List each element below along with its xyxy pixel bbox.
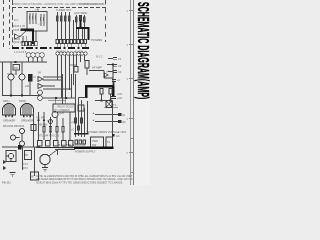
wire into C121 lead xyxy=(107,64,113,66)
wire left return xyxy=(2,62,4,96)
junction dot y98 b xyxy=(65,97,67,99)
svg-text:R130: R130 xyxy=(70,63,77,67)
speaker SP1 dome xyxy=(3,104,16,116)
left perforation dashed line 2 xyxy=(9,0,11,49)
svg-text:IC: IC xyxy=(34,75,37,79)
coil L111 xyxy=(59,52,62,55)
wire x78 vertical xyxy=(78,29,80,40)
resistor R160 body xyxy=(31,125,36,131)
wire bundle v4 xyxy=(69,55,71,90)
section tick 3 xyxy=(129,78,134,80)
coil L118 xyxy=(84,52,87,55)
wire Q110 collector xyxy=(10,62,12,74)
wire heatsink down xyxy=(29,82,31,96)
junction dot Q110 xyxy=(10,95,12,97)
heavy rail left drop xyxy=(85,86,87,98)
svg-text:SW: SW xyxy=(14,66,19,70)
coil L112 xyxy=(63,52,66,55)
svg-text:(R): (R) xyxy=(122,120,126,124)
connector pin b2 xyxy=(79,140,81,144)
transistor Q140 xyxy=(52,112,58,118)
coil L101 xyxy=(26,53,31,58)
wire L101 lead xyxy=(28,57,30,62)
svg-text:ADJUST BIAS 25mV AT TP1-TP2.: ADJUST BIAS 25mV AT TP1-TP2. SEMICONDUCT… xyxy=(36,181,123,184)
frame border line xyxy=(133,0,135,185)
op-amp U103 xyxy=(38,77,43,82)
switch S101 wire xyxy=(95,114,118,116)
svg-text:SP(L): SP(L) xyxy=(3,99,10,103)
switch S102 contact xyxy=(118,120,122,123)
speaker SP2 terminals xyxy=(23,115,25,118)
section divider line 2 xyxy=(130,172,133,174)
svg-text:REG B+: REG B+ xyxy=(38,123,48,127)
svg-text:AC: AC xyxy=(116,134,120,138)
right margin background xyxy=(134,0,150,185)
svg-text:x→x: x→x xyxy=(47,120,53,123)
svg-text:R72: R72 xyxy=(23,166,28,170)
resistor R103 body xyxy=(35,16,36,20)
fuse box F101 xyxy=(106,137,113,147)
svg-text:PWR: PWR xyxy=(92,139,98,143)
terminal dots SP2 xyxy=(23,115,31,117)
wire Q110 emitter xyxy=(10,80,12,96)
svg-text:TO MAIN: TO MAIN xyxy=(91,38,102,42)
wire step left xyxy=(79,97,87,99)
wire CN103 lead 3 xyxy=(84,44,86,48)
speaker SP2 hatch 5 xyxy=(28,104,30,115)
heavy bottom rail thin part xyxy=(36,147,74,149)
wire CN102 lead 1 xyxy=(56,44,58,48)
resistor R107 xyxy=(43,14,45,26)
wire pin v2 xyxy=(80,55,82,62)
resistor R113 lead xyxy=(69,12,71,40)
connector CN101 pin 4 xyxy=(32,42,34,46)
wire K101 down xyxy=(15,70,17,75)
resistor R141 inside amp xyxy=(109,89,112,95)
resistor R170 body xyxy=(43,127,45,133)
resistor R122 body xyxy=(84,17,86,22)
svg-text:dA: dA xyxy=(106,71,109,74)
wire center v2 xyxy=(43,112,45,140)
wire y80 horizontal xyxy=(43,79,63,81)
speaker SP1 hatch 2 xyxy=(8,104,10,115)
svg-text:+B: +B xyxy=(35,8,39,12)
heavy supply bus vertical xyxy=(32,29,34,44)
resistor R110 body xyxy=(57,16,59,21)
wire L102 lead xyxy=(32,57,34,62)
svg-text:Q1 Q2: Q1 Q2 xyxy=(7,72,15,76)
coil L117 xyxy=(80,52,83,55)
connector CN101 pin 3 xyxy=(28,42,30,46)
wire bundle v3 xyxy=(65,55,67,97)
wire step down xyxy=(78,98,80,137)
speaker SP2 hatch 4 xyxy=(24,104,26,115)
capacitor C115 xyxy=(85,61,89,69)
wire bundle mid v0 xyxy=(87,101,89,133)
resistor R171 body xyxy=(56,127,58,133)
transistor Q123 lead xyxy=(10,159,12,162)
connector box row 5 xyxy=(69,141,74,147)
coil L113 xyxy=(66,52,69,55)
capacitor C120 plates xyxy=(113,58,117,60)
svg-text:R61 R62 R63 R64: R61 R62 R63 R64 xyxy=(3,124,25,128)
transistor Q123 base lead xyxy=(6,155,8,157)
wire AF right vertical xyxy=(112,65,114,86)
transformer T101 cross 2 xyxy=(106,101,112,108)
battery box B101 xyxy=(31,172,39,180)
svg-text:+C: +C xyxy=(71,128,75,132)
dashed enclosure left border xyxy=(12,0,14,48)
resistor R120 body xyxy=(76,17,78,22)
svg-text:R104 4.7K: R104 4.7K xyxy=(13,24,26,28)
coil L114 xyxy=(70,52,73,55)
resistor R102 body xyxy=(32,16,33,20)
wire y107 xyxy=(104,107,118,109)
svg-text:+C: +C xyxy=(71,120,75,124)
capacitor C124 polarized plates xyxy=(111,97,116,99)
output bus wire xyxy=(2,95,40,97)
svg-text:AUX TAPE: AUX TAPE xyxy=(74,11,87,15)
capacitor C121 plates xyxy=(113,65,117,67)
wire x33 long vertical xyxy=(33,112,35,147)
wire Q102 to bus xyxy=(20,31,26,37)
wire C115 lead down xyxy=(86,68,88,75)
wire L104 lead xyxy=(41,57,43,62)
transistor Q112 xyxy=(38,90,43,95)
wire y149 horizontal xyxy=(55,149,75,151)
speaker SP1 terminal 2 xyxy=(11,115,13,118)
node dot R141 xyxy=(110,100,112,102)
resistor R112 body xyxy=(65,16,67,21)
resistor R103 xyxy=(35,13,37,24)
node junction AF xyxy=(112,64,114,66)
capacitor C140 body xyxy=(62,127,64,133)
wire vertical x73 xyxy=(73,20,75,40)
wire pin v3 xyxy=(84,55,86,60)
ground GND1 xyxy=(10,173,16,176)
wire C123 down xyxy=(113,82,115,87)
coil L104 xyxy=(40,53,45,58)
speaker SP1 hatch 3 xyxy=(12,106,14,116)
speaker SP1 hatch 5 xyxy=(10,104,12,115)
resistor R106 body xyxy=(40,17,41,21)
wire y147 horizontal xyxy=(2,146,40,148)
connector CN102 pin 3 xyxy=(63,40,66,44)
resistor R161 box xyxy=(25,151,32,160)
transistor Q121 xyxy=(11,135,16,140)
dashed enclosure top border xyxy=(12,7,106,9)
wire AF step vertical xyxy=(103,71,105,79)
switch S102 wire xyxy=(95,121,118,123)
heavy signal bus horizontal xyxy=(76,27,90,29)
transistor Q123 box xyxy=(6,151,16,162)
wire CN102 lead 2 xyxy=(60,44,62,48)
svg-text:1 2 3 4 5 6: 1 2 3 4 5 6 xyxy=(14,50,27,54)
wire C120 lead xyxy=(108,57,113,59)
transformer T101 box xyxy=(106,101,112,108)
section tick 2 xyxy=(129,44,134,46)
wire R140 lead xyxy=(101,94,103,101)
box K101 label xyxy=(13,65,20,71)
svg-text:B+ 35V LINE: B+ 35V LINE xyxy=(58,146,73,150)
left perforation dashed line 1 xyxy=(3,0,5,49)
svg-text:RT: RT xyxy=(25,153,29,157)
svg-text:PB-101: PB-101 xyxy=(2,181,11,185)
coil L110 xyxy=(56,52,59,55)
svg-text:R75 C44 R76 C45: R75 C44 R76 C45 xyxy=(38,134,60,138)
diode D102 xyxy=(105,73,109,77)
resistor R113 body xyxy=(69,16,71,21)
wire x112 long vertical xyxy=(112,101,114,138)
svg-text:* POWER TRANS VOLTAGE 120V: * POWER TRANS VOLTAGE 120V xyxy=(86,130,127,134)
capacitor C130 body xyxy=(78,126,80,130)
resistor R121 body xyxy=(80,16,82,21)
wire x22 vertical low xyxy=(22,147,24,170)
wire AF step horizontal xyxy=(89,70,104,72)
wire bundle v5 xyxy=(73,55,75,85)
svg-text:IN L: IN L xyxy=(14,19,19,22)
connector CN101 pin 1 xyxy=(22,42,24,46)
connector CN103 pin 2 xyxy=(81,40,84,44)
coil L115 xyxy=(73,52,76,55)
wire center v4 xyxy=(62,118,64,140)
wire y100 horizontal xyxy=(48,99,66,101)
resistor R112 lead xyxy=(65,12,67,40)
wire AF step horizontal 2 xyxy=(104,77,113,79)
svg-text:C71: C71 xyxy=(23,162,28,166)
wire amp inner horizontal xyxy=(95,100,113,102)
paper background xyxy=(0,0,150,185)
transistor Q123 symbol circle xyxy=(8,153,13,158)
connector box row 4 xyxy=(62,141,67,147)
section tick 1 xyxy=(129,10,134,12)
relay box RY102 xyxy=(91,137,104,147)
wire L103 lead xyxy=(37,57,39,62)
speaker SP2 dome xyxy=(21,104,34,116)
wire CN102 lead 5 xyxy=(70,44,72,48)
wire Q111 emitter xyxy=(21,80,23,96)
wire opamp1 in xyxy=(43,76,63,78)
connector box row 3 xyxy=(54,141,59,147)
diode D110 xyxy=(3,160,7,164)
wire Q130 base xyxy=(44,165,46,168)
resistor R150 body xyxy=(75,118,77,123)
wire x34 lower vertical xyxy=(34,147,36,176)
svg-text:TUNER OUT: TUNER OUT xyxy=(56,8,72,12)
junction dot Q111 xyxy=(21,95,23,97)
connector CN102 pin 6 xyxy=(74,40,77,44)
transistor Q120 xyxy=(20,129,25,134)
coil L116 xyxy=(77,52,80,55)
speaker SP2 hatch 3 xyxy=(30,106,32,116)
svg-text:C1: C1 xyxy=(118,57,122,61)
wire left horiz y100 xyxy=(104,100,106,102)
resistor R102 xyxy=(32,13,34,24)
transistor Q141 xyxy=(49,120,53,124)
resistor R172 body xyxy=(49,127,51,133)
wire opamp2 out xyxy=(43,85,55,87)
svg-text:C2: C2 xyxy=(118,64,122,68)
coil L102 xyxy=(31,53,36,58)
svg-text:POWER SIGNAL CTL: POWER SIGNAL CTL xyxy=(79,2,105,6)
op-amp U104 xyxy=(38,84,43,89)
wire bundle v2 xyxy=(61,55,63,97)
wire Q111 collector xyxy=(21,62,23,74)
terminal dots SP1 xyxy=(5,115,13,117)
wire x62 vertical xyxy=(62,74,64,104)
switch S101 contact xyxy=(118,113,122,116)
coil L103 xyxy=(35,53,40,58)
diode D103 box xyxy=(78,105,84,111)
wire pins to box xyxy=(22,36,24,42)
wire R141 lead xyxy=(110,94,112,101)
wire bundle mid v3 xyxy=(84,108,86,137)
svg-text:◄: ◄ xyxy=(92,119,95,122)
wire CN103 lead 2 xyxy=(81,44,83,48)
wire into C122 xyxy=(108,71,113,73)
resistor R131 box xyxy=(74,67,78,73)
svg-text:+C: +C xyxy=(117,78,121,82)
svg-text:AM21: AM21 xyxy=(14,38,21,41)
connector CN101 pin 2 xyxy=(25,42,27,46)
capacitor C123 polarized xyxy=(112,80,116,82)
dashed enclosure heavy bottom border xyxy=(12,47,90,49)
speaker SP2 hatch 1 xyxy=(22,106,24,116)
wire pin5 up xyxy=(35,31,37,42)
connector CN102 pin 4 xyxy=(67,40,70,44)
wire pin v1 xyxy=(76,55,78,66)
resistor R101 body xyxy=(29,16,30,20)
wire x57 vertical above Q130 xyxy=(57,150,59,156)
section tick 5 xyxy=(129,152,134,154)
transistor Q122 xyxy=(20,141,25,146)
transistor Q111 xyxy=(19,74,25,80)
speaker SP2 terminal 2 xyxy=(29,115,31,118)
resistor R106 xyxy=(40,14,42,26)
wire bundle mid v1 xyxy=(75,74,77,137)
relay box RY101 xyxy=(53,104,75,112)
resistor R110 lead xyxy=(57,12,59,40)
transistor Q110 xyxy=(8,74,14,80)
connector box row 1 xyxy=(38,141,43,147)
node dot power xyxy=(112,134,115,137)
svg-text:IN 1 2: IN 1 2 xyxy=(96,56,103,59)
heatsink dark block xyxy=(28,74,33,82)
resistor R122 lead xyxy=(84,15,86,40)
svg-text:3 4 5 6: 3 4 5 6 xyxy=(75,50,83,54)
svg-text:Q05: Q05 xyxy=(59,111,64,115)
connector row bottom pins xyxy=(75,140,77,144)
svg-text:SCHEMATIC DIAGRAM(AMP): SCHEMATIC DIAGRAM(AMP) xyxy=(134,2,150,99)
speaker SP2 hatch 2 xyxy=(26,104,28,115)
ground GND2 xyxy=(42,168,48,171)
wire center v5 xyxy=(69,112,71,140)
svg-text:◄: ◄ xyxy=(92,112,95,115)
frame inner thin line xyxy=(129,0,131,185)
speaker SP1 hatch 4 xyxy=(6,104,8,115)
connector CN103 pin 1 xyxy=(77,40,80,44)
junction dot y98 a xyxy=(55,97,57,99)
transistor Q113 xyxy=(38,96,43,101)
node junction dot xyxy=(15,61,17,63)
svg-text:L/R: L/R xyxy=(25,84,29,88)
heavy supply bus horizontal xyxy=(21,29,35,31)
svg-text:SPEAKER: SPEAKER xyxy=(21,119,33,123)
wire y98 horizontal xyxy=(43,97,76,99)
section divider line xyxy=(130,138,133,140)
connector box row 2 xyxy=(46,141,51,147)
node dot grid b xyxy=(43,119,45,121)
svg-text:+C6: +C6 xyxy=(117,96,122,100)
connector CN102 pin 1 xyxy=(56,40,59,44)
svg-text:C3: C3 xyxy=(118,70,122,74)
connector pin b3 xyxy=(83,140,85,144)
wire center v3 xyxy=(56,117,58,140)
wire x55 drop xyxy=(55,98,57,104)
heavy bottom rail xyxy=(74,146,114,149)
ground bus wire xyxy=(0,61,47,63)
transistor Q102 triangle xyxy=(15,34,21,39)
dashed enclosure right border xyxy=(105,0,107,42)
svg-text:PA: PA xyxy=(38,72,41,75)
svg-text:C105 10u: C105 10u xyxy=(13,28,25,32)
heavy signal bus stub vertical xyxy=(80,20,82,29)
wire CN102 lead 3 xyxy=(63,44,65,48)
wire CN103 lead 1 xyxy=(77,44,79,48)
transistor Q130 leads xyxy=(49,150,58,157)
svg-text:AF AMP: AF AMP xyxy=(92,66,102,70)
wire Q120 lead xyxy=(21,134,23,142)
wire pin2 up xyxy=(25,36,27,42)
wire CN102 lead 4 xyxy=(67,44,69,48)
wire Q121 lead xyxy=(16,137,20,139)
section tick 4 xyxy=(129,118,134,120)
node dot grid a xyxy=(38,119,40,121)
wire x71 vertical xyxy=(71,74,73,98)
svg-text:SP(R): SP(R) xyxy=(19,99,26,103)
heavy mid bar xyxy=(74,133,89,135)
connector CN102 pin 5 xyxy=(70,40,73,44)
connector CN101 pin 5 xyxy=(35,42,37,46)
resistor R107 body xyxy=(43,17,44,21)
heavy rail top bar xyxy=(85,85,114,87)
connector CN103 pin 3 xyxy=(84,40,87,44)
resistor R140 inside amp xyxy=(100,89,103,95)
box U101 outline xyxy=(27,12,47,32)
transistor Q130 power xyxy=(40,154,50,164)
resistor R120 lead xyxy=(76,15,78,40)
svg-text:C R: C R xyxy=(38,24,42,26)
svg-text:C41 R42: C41 R42 xyxy=(36,118,46,120)
resistor R101 xyxy=(29,13,31,24)
wire center v1 xyxy=(38,112,40,140)
resistor R111 body xyxy=(61,16,63,21)
heavy junction blob xyxy=(18,145,22,150)
wire opamp2 in xyxy=(43,88,72,90)
resistor R111 lead xyxy=(61,12,63,40)
heavy signal bus down vertical xyxy=(88,28,90,40)
svg-text:(L): (L) xyxy=(122,113,125,117)
diode D111 xyxy=(3,166,7,170)
speaker SP1 terminals xyxy=(5,115,7,118)
svg-text:POWER SUPPLY: POWER SUPPLY xyxy=(75,150,96,154)
resistor R151 body xyxy=(81,118,83,123)
heavy rail right drop xyxy=(112,86,114,97)
svg-text:+C5: +C5 xyxy=(117,92,122,96)
node dot R140 xyxy=(101,100,103,102)
transformer T101 cross 1 xyxy=(106,101,112,108)
wire center v6 xyxy=(50,117,52,140)
